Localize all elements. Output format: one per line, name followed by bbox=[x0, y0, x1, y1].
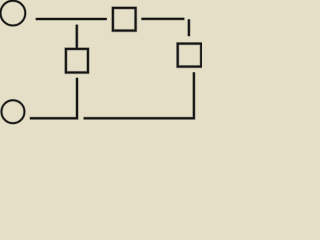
dark core layer of terminals bbox=[1, 1, 26, 124]
soft halo layer of terminals bbox=[1, 1, 26, 124]
soft halo layer of wires and blocks bbox=[30, 8, 201, 118]
dark core layer of wires and blocks bbox=[30, 8, 201, 118]
